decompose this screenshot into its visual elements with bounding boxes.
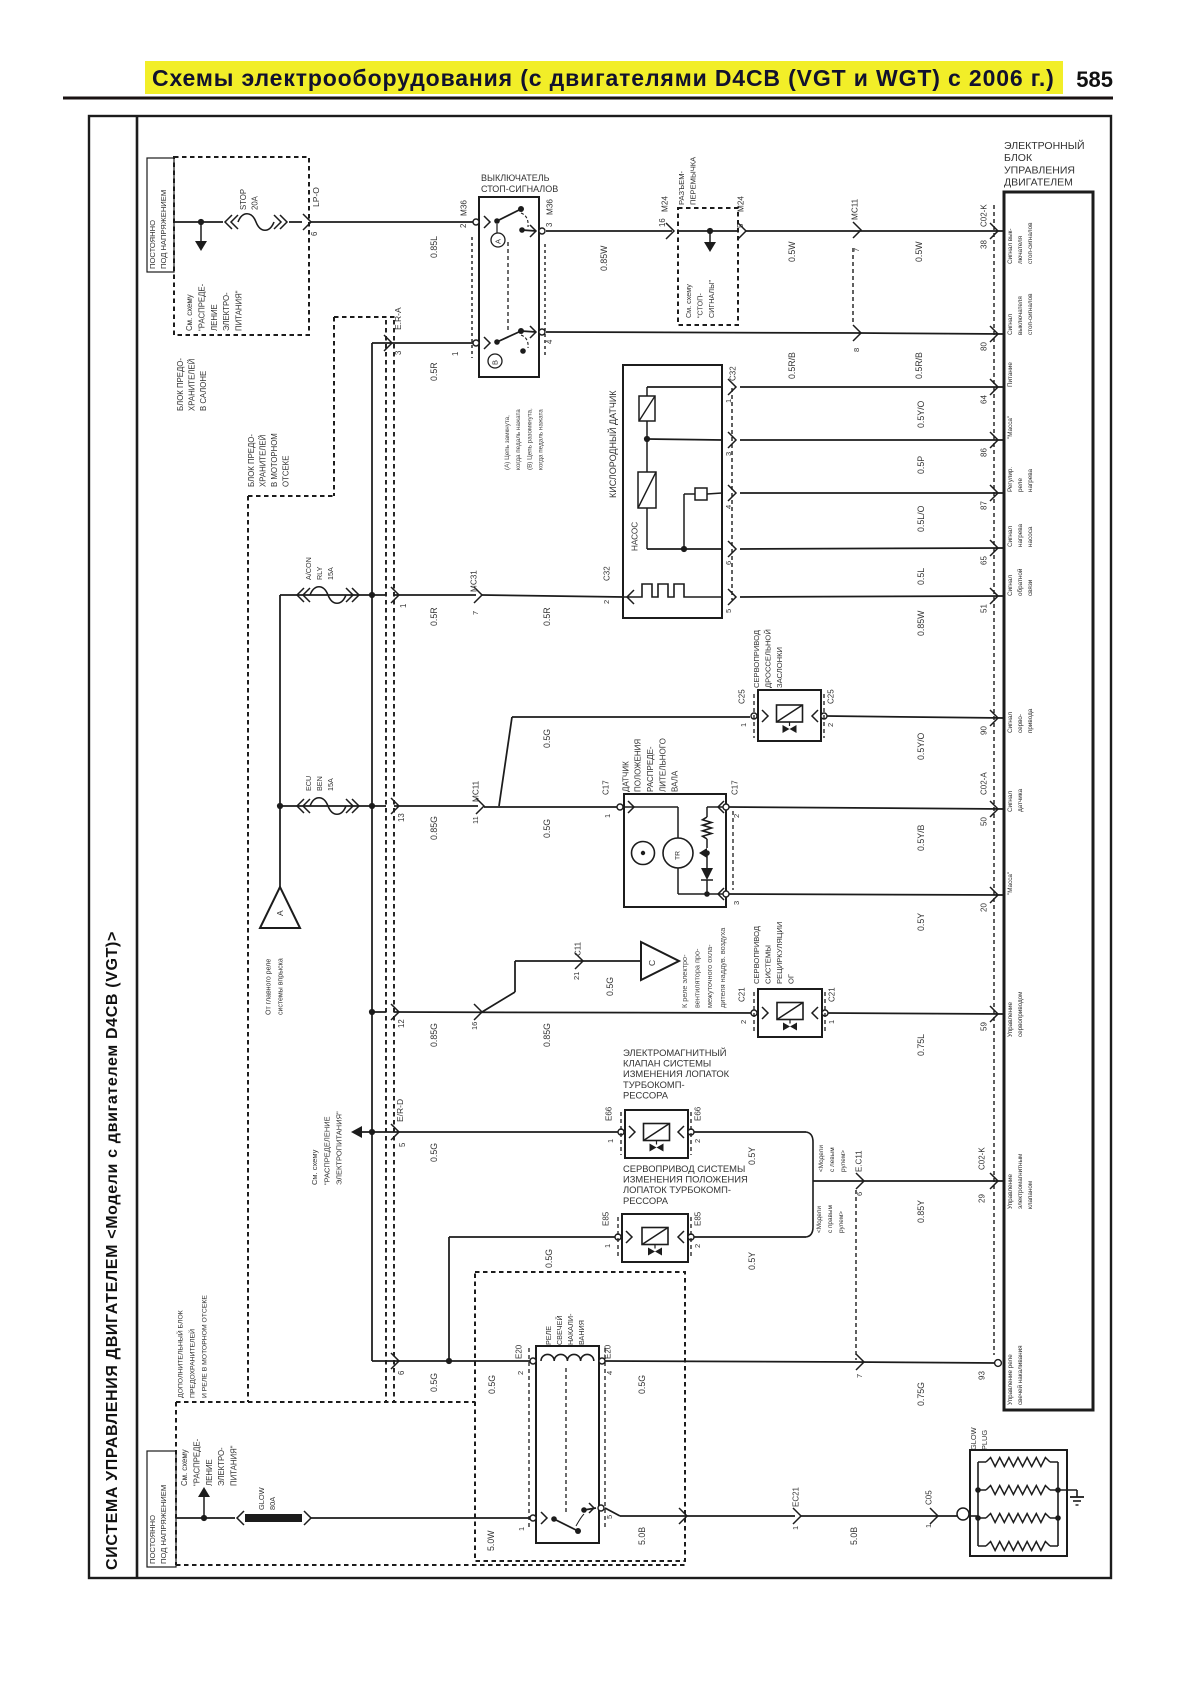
turbo servo box E85 — [622, 1214, 688, 1262]
wire ECU BEN row — [280, 805, 386, 807]
svg-text:См. схему: См. схему — [185, 294, 194, 331]
wire row2 switch to ECU pin 80 — [546, 332, 860, 333]
fuse A/CON RLY 15A — [297, 588, 304, 602]
in-line connector MC31 — [474, 587, 482, 603]
svg-text:ЗАСЛОНКИ: ЗАСЛОНКИ — [775, 647, 784, 688]
svg-text:C25: C25 — [737, 689, 746, 704]
svg-text:ПОД НАПРЯЖЕНИЕМ: ПОД НАПРЯЖЕНИЕМ — [159, 1485, 168, 1564]
oxygen sensor box — [623, 365, 722, 618]
glow plug box — [970, 1450, 1067, 1556]
wire 0.5G feed to E85 — [448, 1237, 450, 1361]
glow relay dashed enclosure — [475, 1272, 685, 1561]
svg-text:38: 38 — [979, 240, 988, 249]
svg-text:0.85G: 0.85G — [429, 1023, 439, 1047]
svg-text:СИСТЕМЫ: СИСТЕМЫ — [764, 945, 773, 984]
svg-text:0.85Y: 0.85Y — [916, 1200, 926, 1223]
glow plug rail junctions — [975, 1487, 981, 1493]
svg-text:Сигнал: Сигнал — [1007, 791, 1014, 812]
svg-text:нагрева: нагрева — [1017, 523, 1024, 547]
svg-text:рулем>: рулем> — [838, 1211, 845, 1233]
svg-text:БЛОК: БЛОК — [1004, 152, 1033, 164]
svg-text:0.5Y: 0.5Y — [916, 913, 926, 931]
svg-text:A: A — [494, 239, 503, 244]
wire glow feed — [176, 1517, 235, 1519]
svg-text:50: 50 — [979, 817, 988, 826]
circle A label — [491, 233, 505, 247]
svg-text:"РАСПРЕДЕЛЕНИЕ: "РАСПРЕДЕЛЕНИЕ — [322, 1116, 331, 1185]
svg-text:См. схему: См. схему — [180, 1449, 189, 1486]
svg-text:5: 5 — [605, 1515, 614, 1519]
svg-text:TR: TR — [674, 851, 681, 860]
C17 pin 1 — [617, 804, 623, 810]
stop lamp switch box M36 — [479, 197, 539, 377]
svg-text:M36: M36 — [460, 200, 469, 216]
vertical rail from E.R-A down — [371, 343, 373, 1361]
svg-text:ДАТЧИК: ДАТЧИК — [621, 761, 630, 792]
sensor pin 6 chevron — [728, 541, 736, 557]
svg-text:ПЕРЕМЫЧКА: ПЕРЕМЫЧКА — [689, 156, 698, 205]
junction E/R-D — [369, 1129, 375, 1135]
svg-text:86: 86 — [979, 448, 988, 457]
boundary chevron pin 5 — [391, 1124, 399, 1140]
pin3 internal wire — [677, 868, 679, 894]
glow plug right rail — [1057, 1462, 1059, 1546]
svg-text:1: 1 — [791, 1526, 800, 1530]
junction heater — [644, 436, 650, 442]
branch diagonal to throttle servo row — [499, 717, 512, 806]
svg-text:ЛЕНИЕ: ЛЕНИЕ — [210, 304, 219, 331]
ECU boundary chevron row 80 — [990, 326, 998, 342]
svg-text:B: B — [491, 360, 500, 365]
svg-text:ДОПОЛНИТЕЛЬНЫЙ БЛОК: ДОПОЛНИТЕЛЬНЫЙ БЛОК — [175, 1310, 184, 1398]
svg-text:5.0B: 5.0B — [849, 1527, 859, 1545]
pump element НАСОС — [646, 439, 648, 472]
sensor pin 3 chevron — [728, 432, 736, 448]
svg-text:4: 4 — [545, 339, 554, 344]
wire E.R-A — [372, 342, 475, 344]
svg-text:Управление: Управление — [1007, 1173, 1014, 1209]
svg-text:6: 6 — [397, 1371, 406, 1375]
svg-text:29: 29 — [977, 1194, 986, 1203]
svg-text:нагрева: нагрева — [1027, 468, 1034, 492]
sensor resistor — [706, 807, 708, 817]
wire row1 to stop lamp switch — [311, 221, 475, 223]
svg-text:80A: 80A — [268, 1497, 277, 1510]
dashed engine-bay fuse box step edge — [248, 495, 334, 497]
header rule — [63, 97, 1113, 100]
svg-text:РАЗЪЕМ-: РАЗЪЕМ- — [677, 170, 686, 205]
svg-text:0.85W: 0.85W — [599, 245, 609, 271]
svg-text:0.5Y: 0.5Y — [747, 1147, 757, 1165]
svg-text:1: 1 — [827, 1020, 836, 1024]
svg-text:"РАСПРЕДЕ-: "РАСПРЕДЕ- — [193, 1438, 202, 1486]
circle B label — [488, 354, 502, 368]
svg-text:0.5R: 0.5R — [542, 607, 552, 626]
svg-text:0.85W: 0.85W — [916, 610, 926, 636]
svg-text:с левым: с левым — [829, 1147, 836, 1172]
arrow to power distribution — [351, 1126, 362, 1138]
svg-text:свечей накаливания: свечей накаливания — [1016, 1345, 1024, 1405]
svg-text:ПИТАНИЯ": ПИТАНИЯ" — [229, 1445, 238, 1486]
svg-text:C02-A: C02-A — [979, 772, 988, 795]
C21 pin 2 — [751, 1010, 757, 1016]
svg-text:20: 20 — [979, 903, 988, 912]
svg-text:80: 80 — [979, 342, 988, 351]
svg-text:A/CON: A/CON — [304, 557, 313, 580]
svg-text:E.R-A: E.R-A — [393, 307, 403, 330]
svg-text:(A) Цепь замкнута,: (A) Цепь замкнута, — [504, 415, 511, 470]
E66 pin 1 — [618, 1129, 624, 1135]
svg-text:"СТОП-: "СТОП- — [695, 293, 704, 318]
glow plug left rail — [977, 1462, 979, 1546]
svg-text:C11: C11 — [573, 941, 582, 956]
svg-text:вентилятора про-: вентилятора про- — [693, 948, 702, 1008]
svg-text:0.85L: 0.85L — [429, 236, 439, 258]
svg-text:стоп-сигналов: стоп-сигналов — [1027, 293, 1034, 335]
svg-text:Сигнал: Сигнал — [1007, 575, 1014, 596]
svg-text:<Модели: <Модели — [816, 1206, 823, 1233]
boundary chevron pin 6 — [303, 214, 311, 230]
C21 connector dashed lines — [753, 992, 755, 1034]
svg-text:0.85G: 0.85G — [429, 816, 439, 840]
svg-text:MC11: MC11 — [472, 780, 481, 802]
C21 pin 1 — [812, 1007, 818, 1019]
svg-text:СЕРВОПРИВОД СИСТЕМЫ: СЕРВОПРИВОД СИСТЕМЫ — [623, 1163, 745, 1174]
switch contact B — [473, 340, 479, 346]
svg-text:ПОСТОЯННО: ПОСТОЯННО — [148, 1515, 157, 1564]
svg-text:Питание: Питание — [1007, 362, 1014, 387]
svg-text:51: 51 — [979, 604, 988, 613]
svg-text:5.0W: 5.0W — [486, 1530, 496, 1551]
svg-text:M24: M24 — [661, 196, 670, 212]
svg-text:2: 2 — [602, 600, 611, 604]
svg-text:7: 7 — [471, 611, 480, 615]
svg-text:УПРАВЛЕНИЯ: УПРАВЛЕНИЯ — [1004, 164, 1075, 176]
svg-text:EC21: EC21 — [791, 1486, 800, 1507]
sensor pin 1 chevron — [728, 379, 736, 395]
heater element 1 — [647, 386, 722, 388]
sensor internal wiring — [624, 806, 678, 808]
svg-text:РЕЛЕ: РЕЛЕ — [544, 1326, 553, 1345]
relay contact — [530, 1515, 536, 1521]
wire C17 pin3 to ECU 20 — [729, 894, 1004, 895]
svg-text:серво-: серво- — [1017, 714, 1024, 733]
svg-text:межуточного охла-: межуточного охла- — [705, 944, 714, 1008]
svg-text:585: 585 — [1076, 67, 1113, 92]
svg-text:СТОП-СИГНАЛОВ: СТОП-СИГНАЛОВ — [481, 184, 558, 194]
svg-text:СИГНАЛЫ": СИГНАЛЫ" — [707, 280, 716, 318]
junction coil row — [446, 1358, 452, 1364]
svg-text:1: 1 — [606, 1139, 615, 1143]
connector C05 chevron 1 — [930, 1508, 938, 1524]
svg-text:2: 2 — [739, 1020, 748, 1024]
svg-text:ЭЛЕКТРО-: ЭЛЕКТРО- — [217, 1447, 226, 1486]
wire C21 to ECU 59 — [828, 1013, 1004, 1014]
wire pin5 to ECU 51 — [740, 596, 1004, 597]
svg-text:13: 13 — [397, 813, 406, 822]
svg-text:СИСТЕМА УПРАВЛЕНИЯ ДВИГАТЕЛЕМ: СИСТЕМА УПРАВЛЕНИЯ ДВИГАТЕЛЕМ <Модели с … — [104, 931, 121, 1570]
jumper connector M24 dashed box — [678, 208, 738, 325]
svg-text:0.5R: 0.5R — [429, 362, 439, 381]
svg-text:E.C11: E.C11 — [854, 1150, 863, 1172]
wire branch to C11 — [482, 992, 515, 1012]
boundary chevron pin 6 (coil row) — [391, 1353, 399, 1369]
svg-text:MC11: MC11 — [851, 198, 860, 220]
svg-text:когда педаль нажата: когда педаль нажата — [538, 409, 545, 470]
svg-text:В МОТОРНОМ: В МОТОРНОМ — [270, 433, 279, 487]
svg-text:НАСОС: НАСОС — [631, 522, 640, 551]
page title highlight — [145, 61, 1063, 94]
svg-text:Сигнал: Сигнал — [1007, 526, 1014, 547]
svg-text:3: 3 — [732, 901, 741, 905]
E85 pin 1 — [615, 1234, 621, 1240]
svg-text:ВАЛА: ВАЛА — [671, 770, 680, 792]
svg-text:4: 4 — [605, 1371, 614, 1375]
svg-text:E20: E20 — [514, 1344, 523, 1359]
svg-text:93: 93 — [977, 1371, 986, 1380]
svg-text:0.75L: 0.75L — [916, 1034, 926, 1056]
svg-text:ВЫКЛЮЧАТЕЛЬ: ВЫКЛЮЧАТЕЛЬ — [481, 173, 550, 183]
svg-text:И РЕЛЕ В МОТОРНОМ ОТСЕКЕ: И РЕЛЕ В МОТОРНОМ ОТСЕКЕ — [201, 1295, 208, 1398]
svg-text:<Модели: <Модели — [818, 1145, 825, 1172]
zirconia cell square wave — [623, 584, 722, 597]
svg-text:ПОСТОЯННО: ПОСТОЯННО — [148, 220, 157, 269]
svg-text:Управление: Управление — [1007, 1001, 1014, 1037]
svg-text:ВАНИЯ: ВАНИЯ — [577, 1320, 586, 1345]
svg-text:2: 2 — [693, 1139, 702, 1143]
svg-text:выключателя: выключателя — [1017, 296, 1024, 335]
branch to pin4 square — [683, 494, 685, 549]
svg-text:Сигнал: Сигнал — [1007, 314, 1014, 335]
svg-text:0.5R: 0.5R — [429, 607, 439, 626]
wire row1 feed — [174, 221, 223, 223]
svg-text:0.5Y/O: 0.5Y/O — [916, 732, 926, 760]
svg-text:5.0B: 5.0B — [637, 1527, 647, 1545]
wire pin3 inside — [647, 439, 722, 440]
svg-text:ИЗМЕНЕНИЯ ЛОПАТОК: ИЗМЕНЕНИЯ ЛОПАТОК — [623, 1068, 730, 1079]
svg-text:КИСЛОРОДНЫЙ ДАТЧИК: КИСЛОРОДНЫЙ ДАТЧИК — [607, 390, 618, 498]
dashed engine-bay fuse box top edge — [334, 316, 397, 318]
dashed link MC11 to row2 connector — [852, 248, 854, 324]
svg-text:5: 5 — [736, 223, 745, 228]
E85 pin 2 — [678, 1231, 684, 1243]
svg-text:C05: C05 — [924, 1490, 933, 1505]
svg-text:БЛОК ПРЕДО-: БЛОК ПРЕДО- — [247, 434, 256, 487]
fuse STOP 20A — [225, 215, 232, 229]
svg-text:RLY: RLY — [315, 566, 324, 580]
glow relay body box E20 — [536, 1346, 599, 1543]
svg-text:C32: C32 — [728, 366, 737, 381]
connector EC21 chevron 1 — [793, 1508, 801, 1524]
junction pump out — [681, 546, 687, 552]
svg-text:E66: E66 — [604, 1106, 613, 1121]
svg-text:0.5G: 0.5G — [429, 1143, 439, 1162]
junction resistor TR — [704, 850, 710, 856]
turbo vane solenoid box E66 — [625, 1110, 688, 1158]
svg-text:1: 1 — [724, 399, 733, 403]
wire E/R-D row — [372, 1131, 620, 1133]
wire to relay contact — [311, 1517, 533, 1519]
svg-text:(B) Цепь разомкнута,: (B) Цепь разомкнута, — [526, 408, 533, 470]
svg-text:87: 87 — [979, 501, 988, 510]
junction diode out — [704, 891, 710, 897]
dashed engine-bay fuse box left edge upper — [333, 317, 335, 496]
svg-text:когда педаль нажата: когда педаль нажата — [515, 409, 522, 470]
svg-text:65: 65 — [979, 556, 988, 565]
svg-text:C32: C32 — [602, 566, 611, 581]
svg-text:ЭЛЕКТРОМАГНИТНЫЙ: ЭЛЕКТРОМАГНИТНЫЙ — [623, 1047, 727, 1058]
boundary chevron pin 3 — [384, 335, 392, 351]
svg-text:0.85G: 0.85G — [542, 1023, 552, 1047]
svg-text:ЭЛЕКТРОННЫЙ: ЭЛЕКТРОННЫЙ — [1004, 139, 1085, 152]
svg-text:лючателя: лючателя — [1017, 236, 1024, 264]
svg-text:См. схему: См. схему — [684, 284, 693, 318]
svg-text:15A: 15A — [326, 778, 335, 791]
svg-text:2: 2 — [693, 1244, 702, 1248]
dashed EC11 line — [855, 1190, 857, 1360]
svg-text:1: 1 — [739, 723, 748, 727]
svg-text:ECU: ECU — [304, 776, 313, 791]
junction in M24 — [707, 228, 713, 234]
svg-text:реле: реле — [1017, 478, 1024, 492]
E85 connector dashed lines — [617, 1217, 619, 1259]
C17 pin 3 — [718, 888, 724, 900]
svg-text:5: 5 — [398, 1142, 407, 1147]
camshaft sensor box — [624, 794, 726, 907]
junction glow feed — [201, 1515, 207, 1521]
svg-text:ПРЕДОХРАНИТЕЛЕЙ: ПРЕДОХРАНИТЕЛЕЙ — [187, 1329, 196, 1398]
svg-text:ХРАНИТЕЛЕЙ: ХРАНИТЕЛЕЙ — [188, 359, 197, 411]
svg-text:E66: E66 — [693, 1106, 702, 1121]
svg-text:GLOW: GLOW — [969, 1427, 978, 1450]
svg-text:MC31: MC31 — [470, 570, 479, 592]
svg-text:20A: 20A — [251, 195, 260, 210]
connector EC11 chevron 6 — [856, 1173, 864, 1189]
sensor diode — [706, 853, 708, 868]
svg-text:3: 3 — [394, 351, 403, 355]
wire row1 switch to M24 — [546, 230, 672, 232]
wire pin3 to ECU 86 — [740, 439, 1004, 441]
svg-text:СЕРВОПРИВОД: СЕРВОПРИВОД — [752, 630, 761, 688]
svg-text:электромагнитным: электромагнитным — [1017, 1154, 1024, 1209]
svg-text:РЕЦИРКУЛЯЦИИ: РЕЦИРКУЛЯЦИИ — [775, 922, 784, 984]
fusible link GLOW 80A — [237, 1511, 244, 1525]
svg-text:1: 1 — [603, 814, 612, 818]
svg-text:В САЛОНЕ: В САЛОНЕ — [199, 371, 208, 411]
svg-text:привода: привода — [1027, 708, 1034, 733]
svg-text:1: 1 — [451, 352, 460, 356]
wire C25 to ECU 90 — [827, 716, 1004, 718]
wire MC11 to camshaft sensor — [484, 806, 620, 808]
switch mechanical dashed link — [507, 242, 509, 330]
svg-text:0.5G: 0.5G — [542, 819, 552, 838]
E20 connector dashed lines — [528, 1348, 530, 1530]
svg-text:15A: 15A — [326, 567, 335, 580]
in-line connector MC11 (lower) — [476, 798, 484, 814]
svg-text:STOP: STOP — [239, 189, 248, 210]
boundary chevron pin 1 (A/CON row) — [394, 594, 476, 596]
junction rail2 at A/CON row — [369, 592, 375, 598]
wire M24 to MC11 — [746, 230, 1004, 232]
chevron 5 M24 — [738, 223, 746, 239]
ECU connector dashed boundary — [993, 205, 995, 1355]
wire EC21 to C05 — [801, 1515, 938, 1517]
svg-text:0.5Y/B: 0.5Y/B — [916, 824, 926, 851]
svg-text:M24: M24 — [737, 196, 746, 212]
svg-text:РАСПРЕДЕ-: РАСПРЕДЕ- — [646, 746, 655, 792]
throttle servo box C25 — [758, 690, 821, 741]
svg-text:0.5L/O: 0.5L/O — [916, 505, 926, 532]
wire through M24 — [678, 230, 738, 232]
C17 connector dashed — [732, 811, 734, 890]
boundary chevron pin 13 — [394, 805, 478, 807]
svg-text:"РАСПРЕДЕ-: "РАСПРЕДЕ- — [198, 283, 207, 331]
svg-text:ТУРБОКОМП-: ТУРБОКОМП- — [623, 1079, 685, 1090]
svg-text:21: 21 — [572, 972, 581, 980]
connector C32 dashed line — [731, 388, 733, 600]
C25 pin 1 — [751, 713, 757, 719]
svg-text:1: 1 — [924, 1524, 933, 1528]
svg-text:2: 2 — [826, 723, 835, 727]
svg-text:8: 8 — [852, 348, 861, 352]
svg-text:0.5G: 0.5G — [487, 1375, 497, 1394]
svg-text:0.5G: 0.5G — [429, 1373, 439, 1392]
svg-text:3: 3 — [724, 452, 733, 456]
svg-text:BEN: BEN — [315, 776, 324, 791]
svg-text:с правым: с правым — [827, 1205, 834, 1233]
svg-text:ОГ: ОГ — [787, 974, 796, 984]
svg-text:Управление реле: Управление реле — [1007, 1354, 1014, 1405]
boundary chevron at relay box edge — [679, 1508, 687, 1524]
see-schematic arrow up (bottom) — [203, 1497, 205, 1518]
connector M36 left dashed — [471, 237, 473, 358]
svg-text:ЛЕНИЕ: ЛЕНИЕ — [205, 1459, 214, 1486]
svg-text:1: 1 — [399, 604, 408, 608]
svg-text:2: 2 — [516, 1371, 525, 1375]
EGR servo box C21 — [758, 989, 822, 1037]
wire pin1 to ECU 64 — [740, 386, 1004, 388]
wire relay to EC21 — [605, 1508, 620, 1516]
junction left rail ECU BEN — [277, 803, 283, 809]
svg-text:ДВИГАТЕЛЕМ: ДВИГАТЕЛЕМ — [1004, 177, 1073, 189]
svg-text:6: 6 — [724, 561, 733, 565]
E66 pin 2 — [678, 1126, 684, 1138]
in-line connector row2 — [853, 325, 861, 341]
wire row 12 — [372, 1011, 386, 1013]
svg-text:Сигнал вык-: Сигнал вык- — [1007, 229, 1014, 265]
sensor pickup circle — [632, 842, 655, 865]
svg-text:16: 16 — [658, 218, 667, 227]
svg-text:E85: E85 — [693, 1211, 702, 1226]
C17 pin 2 — [718, 801, 724, 813]
svg-text:1: 1 — [517, 1527, 526, 1531]
svg-text:К реле электро-: К реле электро- — [680, 954, 689, 1008]
wire pin4 to ECU 87 — [740, 492, 1004, 494]
svg-text:C17: C17 — [601, 780, 610, 795]
svg-text:Схемы электрооборудования (с д: Схемы электрооборудования (с двигателями… — [152, 65, 1055, 91]
svg-text:От главного реле: От главного реле — [266, 959, 273, 1015]
relay coil — [530, 1358, 536, 1364]
svg-text:0.5G: 0.5G — [637, 1375, 647, 1394]
connector C11 chevron 21 — [575, 953, 583, 969]
svg-text:0.5G: 0.5G — [542, 729, 552, 748]
label box ПОСТОЯННО ПОД НАПРЯЖЕНИЕМ (top) — [147, 158, 174, 272]
svg-text:C17: C17 — [730, 780, 739, 795]
junction row1 feed — [198, 219, 204, 225]
left column divider — [136, 116, 139, 1578]
svg-text:КЛАПАН СИСТЕМЫ: КЛАПАН СИСТЕМЫ — [623, 1058, 711, 1069]
svg-text:0.5G: 0.5G — [544, 1249, 554, 1268]
